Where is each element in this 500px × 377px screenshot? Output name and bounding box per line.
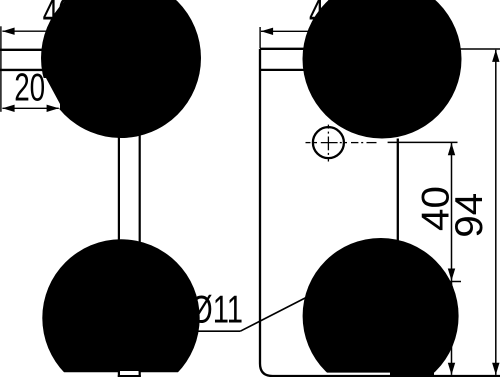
svg-text:40: 40 [43,0,74,35]
svg-text:40: 40 [309,0,340,35]
svg-text:Ø11: Ø11 [190,289,243,332]
svg-text:20: 20 [14,67,45,110]
svg-text:94: 94 [448,193,491,238]
